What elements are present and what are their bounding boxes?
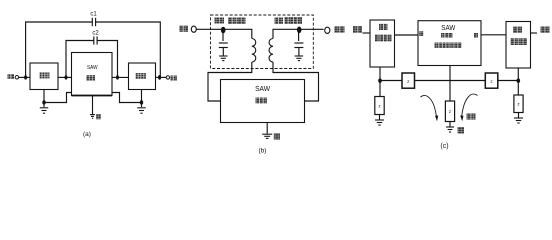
SAW filter box U3 (c) bbox=[418, 21, 481, 66]
label label 匹配网络 (b header right) bbox=[285, 17, 303, 24]
wire left box to SAW box (c) bbox=[395, 34, 419, 36]
wire resistor Z1 to ground (c) bbox=[379, 115, 381, 120]
wire c2 left branch bbox=[66, 41, 94, 78]
label input text 输入 (c) bbox=[353, 26, 362, 33]
node left of SAW (a) bbox=[65, 75, 68, 79]
wire SAW box to resistor Z3 (c) bbox=[449, 66, 451, 102]
parasitic current arrow right (c) bbox=[460, 94, 477, 121]
svg-text:(a): (a) bbox=[83, 131, 91, 138]
wire c1 right branch bbox=[96, 22, 161, 77]
wire resistor Z5 to ground (c) bbox=[518, 113, 520, 118]
wire T1 primary bottom to SAW left (b) bbox=[208, 62, 252, 101]
label label 滤波器 (b) bbox=[256, 98, 268, 104]
wire capacitor to ground (b) right bbox=[298, 48, 300, 56]
wire resistor Z3 to ground (c) bbox=[449, 122, 451, 127]
node left bus junction (c) bbox=[378, 79, 382, 83]
label input text 输入 (b) bbox=[180, 26, 189, 32]
label label 输入 in left box (c) bbox=[379, 24, 388, 30]
output matching network box (c) bbox=[506, 22, 531, 69]
wire left box to SAW (a) bbox=[58, 76, 72, 78]
wire T1 secondary bottom to SAW right (b) bbox=[273, 62, 319, 101]
capacitor C3 shunt left (b) bbox=[219, 43, 228, 48]
transformer T1 secondary winding (b) bbox=[269, 39, 273, 63]
label label 输出 in right box (c) bbox=[513, 27, 522, 33]
wire SAW bottom to ground (b) bbox=[266, 123, 268, 134]
wire right bus to resistor Z5 (c) bbox=[517, 81, 519, 96]
label label 电流 (c) bbox=[467, 113, 476, 119]
input terminal (a) bbox=[15, 76, 19, 80]
input matching network box (a) bbox=[30, 63, 58, 90]
ground center (c) bbox=[446, 127, 454, 132]
ground under SAW (b) bbox=[262, 134, 272, 138]
input terminal (b) bbox=[191, 26, 196, 32]
wire right box to bus (c) bbox=[517, 68, 519, 81]
wire capacitor to ground (b) left bbox=[222, 48, 224, 56]
wire bus right segment (c) bbox=[498, 80, 519, 82]
label label 匹配网络 in right box (a) bbox=[136, 73, 147, 79]
svg-text:(c): (c) bbox=[440, 143, 448, 150]
wire left ground node to SAW left edge (a) bbox=[44, 93, 72, 103]
resistor Z5 shunt right (c) bbox=[514, 95, 523, 113]
node right of SAW (a) bbox=[116, 75, 119, 79]
wire SAW bottom to ground (a) bbox=[92, 96, 94, 115]
label label 地 (c) bbox=[458, 127, 465, 134]
label label 地 (b) bbox=[274, 133, 280, 139]
node input junction (a) bbox=[24, 75, 27, 79]
label label 匹配网络 in right box (c) bbox=[511, 38, 528, 45]
ground left (a) bbox=[40, 108, 49, 113]
wire node to output terminal (b) bbox=[299, 28, 324, 30]
output matching network box (a) bbox=[129, 63, 156, 90]
wire input to left box (c) bbox=[363, 32, 371, 34]
ground under left capacitor (b) bbox=[219, 56, 228, 61]
wire right box to ground node (a) bbox=[141, 90, 143, 103]
wire node to transformer T1 primary top (b) bbox=[223, 29, 252, 38]
label output text 输出 (b) bbox=[335, 26, 345, 33]
node right bus junction (c) bbox=[517, 79, 521, 83]
svg-text:SAW: SAW bbox=[87, 65, 98, 71]
label input text 输入 (a) bbox=[8, 74, 14, 79]
label label 匹配网络 (b header left) bbox=[228, 18, 246, 25]
wire stub to right ground (a) bbox=[141, 103, 143, 108]
ground right (a) bbox=[137, 108, 146, 113]
output terminal (a) bbox=[166, 76, 169, 79]
resistor Z1 shunt left (c) bbox=[375, 97, 384, 115]
wire input terminal to node (b) bbox=[196, 28, 223, 30]
wire input to matching box (a) bbox=[19, 76, 30, 78]
ground under right capacitor (b) bbox=[295, 56, 304, 61]
ground left (c) bbox=[375, 120, 384, 125]
node output junction (a) bbox=[158, 75, 161, 80]
SAW filter box U1 (a) bbox=[72, 53, 113, 96]
transformer T1 primary winding (b) bbox=[252, 39, 256, 63]
impedance Z2 series left (c) bbox=[402, 73, 415, 88]
wire stub to left ground (a) bbox=[43, 103, 45, 108]
svg-text:c1: c1 bbox=[90, 11, 97, 17]
svg-text:(b): (b) bbox=[259, 148, 267, 155]
svg-text:c2: c2 bbox=[92, 30, 99, 36]
label label 输入 (b header) bbox=[215, 18, 225, 24]
wire c1 left branch bbox=[26, 22, 93, 77]
wire right ground node to SAW right edge (a) bbox=[112, 93, 142, 103]
label label 输出 (b header) bbox=[275, 18, 284, 25]
svg-text:SAW: SAW bbox=[441, 25, 455, 32]
SAW box thick bottom edge bbox=[72, 95, 113, 97]
capacitor C4 shunt right (b) bbox=[294, 43, 303, 48]
label output text 输出 (c) bbox=[541, 27, 550, 34]
dashed matching network enclosure (b) bbox=[211, 15, 314, 69]
wire SAW to right box (a) bbox=[112, 76, 129, 78]
capacitor C1 bbox=[92, 18, 95, 26]
wire node to capacitor (b) right bbox=[298, 31, 300, 41]
node input shunt junction (b) bbox=[221, 27, 226, 34]
wire left bus to resistor Z1 (c) bbox=[379, 81, 381, 97]
label label 滤波器 (a) bbox=[87, 75, 96, 80]
wire bus left segment (c) bbox=[380, 80, 402, 82]
label label 入 pin (c) bbox=[419, 31, 423, 36]
wire left box to ground node (a) bbox=[43, 90, 45, 103]
ground under SAW (a) bbox=[90, 115, 95, 119]
wire SAW box to right box (c) bbox=[482, 34, 507, 36]
label label 滤波器 (c) bbox=[441, 33, 453, 38]
resistor Z3 shunt center (c) bbox=[445, 101, 454, 122]
node right ground junction (a) bbox=[140, 100, 143, 104]
label label 出 pin (c) bbox=[474, 33, 478, 38]
label label 匹配网络 in left box (c) bbox=[375, 35, 392, 42]
parasitic current arrow left (c) bbox=[421, 96, 439, 122]
input matching network box (c) bbox=[370, 20, 395, 67]
label output text 输出 (a) bbox=[171, 76, 177, 81]
wire right box to output (a) bbox=[156, 76, 167, 78]
wire T1 secondary top to node (b) bbox=[273, 29, 299, 38]
wire left box to bus (c) bbox=[379, 67, 381, 81]
SAW filter box U2 (b) bbox=[221, 80, 305, 123]
node left ground junction (a) bbox=[42, 100, 45, 104]
wire bus middle segment (c) bbox=[415, 80, 486, 82]
output terminal (b) bbox=[325, 27, 330, 33]
label label 外壳触点及负载 (c) bbox=[435, 43, 462, 49]
label label 地 (a) bbox=[96, 114, 101, 119]
ground right (c) bbox=[514, 118, 523, 123]
wire c2 right branch bbox=[97, 41, 117, 78]
wire node to capacitor (b) left bbox=[222, 31, 224, 41]
node output shunt junction (b) bbox=[297, 27, 302, 34]
wire right box to output (c) bbox=[531, 32, 538, 34]
impedance Z4 series right (c) bbox=[485, 73, 498, 88]
capacitor C2 bbox=[94, 36, 97, 44]
label label 匹配网络 in left box (a) bbox=[40, 72, 50, 78]
svg-text:SAW: SAW bbox=[255, 84, 271, 93]
